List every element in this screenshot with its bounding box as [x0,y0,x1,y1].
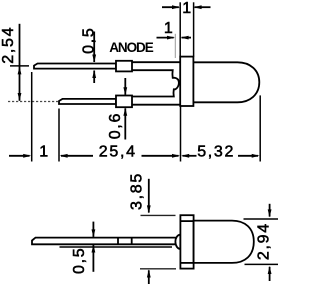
anode lead wide section top edge [132,61,180,63]
gray extension cathode center [8,101,58,103]
dimension lower 1 (crimp offset) [157,37,174,39]
dimension 0,5 line (top fig) [93,32,95,63]
dimension 2,54 vertical line [19,24,21,101]
svg-text:0,5: 0,5 [80,27,97,54]
cathode lead crimp bulge [116,96,132,108]
svg-text:3,85: 3,85 [129,172,146,210]
dimension upper 1 (flange thickness) [162,6,179,8]
flange division lines [180,220,193,222]
arrow down 2,54 [18,93,22,101]
ext line T1 anode lead end [31,72,33,162]
cathode lead thin section [59,99,116,104]
line into T4 [238,155,258,157]
arrow into T1 [9,155,30,157]
dimension 0,6 line [124,78,126,95]
tick at anode center [10,65,29,67]
cathode lead wide section bottom edge [132,104,180,106]
svg-text:1: 1 [39,143,50,160]
svg-text:2,54: 2,54 [0,26,17,64]
wire anode lead thin section [34,64,116,69]
anode lead wide section bottom edge curving into crimp [132,70,179,96]
LED body (bottom figure) [194,221,254,263]
wire flat lead bar [32,238,180,245]
ext line T3 flange left [180,106,182,162]
flange (bottom figure) [180,215,193,268]
svg-text:25,4: 25,4 [99,143,137,160]
ext line T4 body tip [259,95,261,161]
svg-text:0,5: 0,5 [71,247,88,274]
svg-text:0,6: 0,6 [107,112,124,139]
flange (top figure) [180,57,193,106]
line toward T3 [142,155,179,157]
svg-text:5,32: 5,32 [197,143,235,160]
dimension 2,94 [244,218,279,220]
bulge division lines [117,238,119,245]
arrow at T2 pointing left [60,154,68,158]
far lead edge line [60,246,173,248]
ext lines flange edges [179,2,181,56]
crimp half disc [175,235,180,249]
LED body (top figure) [193,62,259,102]
faint ext line crimp end [174,34,176,58]
arrow right of T3 pointing left [181,154,189,158]
svg-text:1: 1 [164,20,175,37]
svg-text:2,94: 2,94 [256,222,273,260]
dimension 3,85 [148,179,150,213]
ext line T2 cathode lead end [58,109,60,162]
anode lead crimp bulge [116,61,132,72]
svg-text:1: 1 [182,0,193,17]
arrow up 2,54 [18,66,22,74]
dimension 0,5 (bottom fig) [92,222,94,237]
svg-text:ANODE: ANODE [109,40,154,55]
